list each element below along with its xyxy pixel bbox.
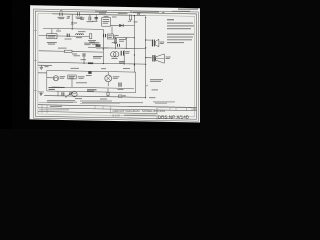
resistor R5 (vertical bars) [89, 34, 91, 39]
capacitor C1 [59, 12, 61, 16]
caption row seg4 [82, 101, 143, 104]
zone tick left 3 [34, 89, 36, 92]
note line 6 [167, 37, 193, 38]
resistor R7 (vertical) [115, 38, 117, 50]
block X1 [107, 34, 113, 39]
wire TR2 down [57, 91, 59, 96]
label woofer [166, 56, 171, 59]
title strip top rule [38, 105, 197, 108]
wire bottom bus B7 [44, 96, 145, 98]
wire row to V2 [113, 36, 134, 38]
junction V2 low [134, 64, 135, 65]
junction B6/V5 [124, 63, 125, 64]
junction B2/V1 [72, 28, 73, 29]
note line 4 [167, 28, 191, 29]
wire from IC1 to diode [111, 24, 135, 26]
label MF/D6 [47, 41, 57, 44]
rev table text [50, 105, 62, 108]
label TR1 [60, 75, 66, 78]
capacitor C5 [82, 53, 84, 56]
relay RL1 block [47, 34, 57, 39]
resistor R2 (vertical) [129, 15, 131, 20]
label link mid [152, 89, 159, 92]
wire component row [39, 35, 90, 38]
title cell verticals mid [94, 106, 96, 109]
wire to tweeter [146, 39, 152, 41]
wire V4 speaker feed [145, 17, 147, 98]
wire stub from row to R7 [113, 35, 115, 37]
border frame inner (drawing boundary) [38, 14, 195, 117]
terminal block on B7 [119, 95, 122, 97]
wire to woofer [146, 57, 152, 59]
label 2N3055 [71, 67, 80, 70]
ground symbol G1 [40, 65, 42, 67]
note line 2 [167, 23, 193, 24]
caption row seg1 [47, 99, 75, 102]
ground symbol G2 [38, 91, 44, 93]
wire mid-lower [52, 87, 134, 88]
wire TR9 up [107, 72, 109, 75]
margin note line 1 (top right) [178, 9, 198, 10]
junction B6/V3 [103, 63, 104, 64]
crossover board outline [47, 71, 136, 93]
switch SW2 [66, 93, 72, 97]
wire V2 main vertical [133, 16, 135, 73]
wire bus B1 (+ve rail top) [52, 14, 146, 16]
title strip low rule [38, 112, 157, 114]
label FOR 705 [49, 89, 55, 90]
label under R6 [96, 47, 101, 50]
wire stub B5 to V4 [145, 47, 146, 48]
label L1 1.5mH [78, 30, 86, 33]
wire V5 [123, 50, 125, 64]
margin note above frame (top center-right) [133, 11, 159, 14]
inductor L1 [76, 34, 78, 35]
label mid B2 [56, 30, 61, 33]
junction B6/V2 [134, 64, 135, 65]
capacitor C14 [61, 92, 63, 95]
wire R10 drop [71, 79, 73, 87]
mark below B1 [68, 16, 70, 18]
scan background [0, 0, 200, 129]
wire V3 [102, 29, 104, 64]
resistor R12 (vertical) [107, 92, 109, 95]
zone tick top 4 [162, 11, 165, 14]
label above IC [104, 15, 109, 18]
border frame middle [35, 11, 196, 119]
label C8 right [119, 60, 125, 63]
junction V2 extra [134, 54, 135, 55]
margin note line 2 (top right) [172, 10, 190, 13]
border frame outer [33, 9, 198, 121]
op-amp IC1 block [102, 18, 111, 27]
label R1 4.7K [97, 10, 107, 13]
label 100K [58, 47, 67, 50]
label right of R2 [134, 21, 138, 24]
drg cells verticals [156, 107, 158, 119]
transistor TR2 [72, 92, 77, 97]
caption row seg2 [80, 100, 112, 103]
tick on B2 [57, 29, 59, 30]
transistor TR1 [53, 76, 58, 81]
capacitor C9 [117, 44, 119, 47]
capacitor C7 (polarised) [95, 15, 97, 21]
zone tick top 2 [95, 10, 98, 13]
lamp LP1 (double circle) [111, 52, 116, 57]
label TR9 [113, 75, 120, 78]
label 4.7uF 250V [84, 42, 92, 45]
fuse FS1 [71, 22, 74, 25]
label board top [101, 67, 106, 70]
junction V2 top [134, 15, 135, 16]
note heading [167, 19, 174, 20]
wire drop to B5 [125, 38, 127, 49]
note line 5 [167, 34, 194, 35]
label R7 [119, 38, 126, 41]
wire bus B5 [88, 48, 146, 49]
paper sheet [30, 5, 201, 122]
label near pad [86, 74, 92, 77]
label buttons line1 [150, 78, 163, 81]
label TR2 [87, 89, 97, 90]
label 2.2uF [67, 15, 69, 18]
capacitor C4 [103, 34, 105, 37]
zone tick left 1 [34, 29, 36, 32]
mounting pad [88, 71, 91, 74]
label under inductor [76, 36, 82, 39]
note line 8 [167, 42, 184, 43]
rev row 2 [39, 101, 73, 104]
rev table verticals [41, 105, 43, 113]
title strip mid rule [38, 108, 197, 111]
wire C5 drop [83, 57, 85, 64]
pointer arrow to V4 [146, 85, 148, 87]
label LINK [149, 96, 156, 99]
junction V4 B6 [145, 64, 146, 65]
junction V3 bus B5 [103, 48, 104, 49]
capacitor C6 [88, 17, 90, 21]
label C6 [87, 20, 94, 23]
junction V4 woofer [145, 57, 146, 58]
label C3 [65, 38, 72, 41]
resistor R10 block [68, 75, 76, 79]
label LOW PASS CROSSOVER [49, 87, 65, 88]
tweeter LS1 [152, 40, 153, 47]
capacitor C10 (polarised) [120, 51, 122, 56]
label R5 10K [88, 39, 96, 42]
wire input lower [38, 72, 47, 74]
label lamp [112, 57, 118, 60]
scan noise texture [30, 5, 201, 122]
zone tick top 3 [130, 10, 133, 13]
label left of C6 [80, 17, 84, 20]
wire bus B2 [43, 28, 103, 29]
thick segment on B6 [88, 62, 93, 64]
label C2 value [76, 16, 83, 19]
junction V4 top [145, 17, 146, 18]
capacitor C13 [118, 83, 120, 87]
wire IC output drop [111, 26, 113, 34]
wire V1 fuse drop [71, 15, 73, 29]
caption row seg3 [47, 101, 77, 104]
note line 3 [167, 25, 194, 26]
note line 7 [167, 39, 192, 40]
label near fuse [74, 22, 78, 25]
label under B7 [100, 98, 107, 101]
label buttons line2 [150, 80, 161, 83]
label SW1 [102, 47, 109, 50]
label C7 [92, 20, 98, 23]
label C13 [118, 88, 124, 91]
terminal tag on B1 [138, 13, 140, 15]
zone tick top 1 [60, 9, 63, 12]
drg cells text [159, 106, 169, 109]
label C1 value [58, 16, 65, 19]
label 47R [123, 67, 130, 70]
diode D1 [119, 24, 123, 27]
wire bus B4 [39, 50, 65, 52]
label G1 [45, 65, 49, 68]
transistor TR9 [105, 75, 112, 82]
wire bus B6 [38, 62, 146, 64]
label C8 2200uF [93, 55, 103, 58]
label under B1 right [112, 16, 117, 19]
capacitor C3 [66, 34, 68, 37]
resistor R3 (horizontal) [65, 50, 73, 52]
label R4 [72, 53, 77, 56]
label R11 10K [75, 97, 82, 100]
label C12 value [76, 81, 87, 84]
label C9 [112, 41, 117, 44]
woofer LS2 [152, 55, 153, 61]
label right cluster a [115, 34, 119, 37]
label C12 [78, 75, 85, 78]
junction V4 tweeter [145, 39, 146, 40]
resistor R6 block [96, 44, 101, 47]
label +35V [118, 12, 128, 15]
junction V2 mid [134, 37, 135, 38]
label R6 1K [91, 41, 100, 44]
wire ground rail [38, 64, 52, 66]
label tweeter [160, 41, 165, 44]
capacitor C2 [76, 12, 78, 16]
zone tick left 2 [34, 59, 36, 62]
stub box A up [51, 29, 53, 34]
junction B7 end [145, 97, 146, 98]
terminal circle [69, 93, 71, 95]
label under C5 [81, 58, 87, 61]
label C10 [125, 50, 130, 53]
note above title rules [153, 101, 175, 104]
